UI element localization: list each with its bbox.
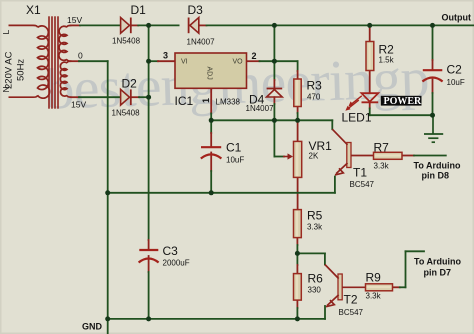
- svg-text:T2: T2: [344, 293, 358, 307]
- wire: center tap to GND vertical: [71, 60, 79, 62]
- svg-text:R3: R3: [307, 79, 323, 93]
- wire: VR1 wiper feed: [273, 120, 275, 156]
- svg-text:0: 0: [78, 51, 83, 61]
- wire: mid ground rail: [108, 192, 335, 194]
- svg-text:10uF: 10uF: [226, 156, 244, 165]
- emitter arrow: [335, 168, 343, 175]
- wire: top rail D3 to right edge (Output): [199, 24, 207, 26]
- svg-text:ADJ: ADJ: [206, 67, 213, 80]
- svg-text:To Arduino: To Arduino: [414, 257, 461, 267]
- wire: T1 collector feed: [331, 120, 333, 129]
- resistor R2: [366, 42, 395, 71]
- wire: R2 top pin from rail: [369, 25, 371, 41]
- svg-text:LED1: LED1: [342, 110, 372, 124]
- svg-text:pin D7: pin D7: [424, 268, 452, 278]
- svg-text:VI: VI: [181, 59, 188, 66]
- svg-text:2: 2: [252, 51, 257, 61]
- capacitor C2: [422, 63, 464, 88]
- diode D4: [246, 89, 283, 114]
- svg-text:3: 3: [163, 51, 168, 61]
- LED1: [342, 93, 423, 124]
- svg-text:10uF: 10uF: [447, 78, 465, 87]
- wire: R5 pins: [296, 238, 298, 245]
- primary winding: [9, 25, 38, 27]
- emitter arrow: [326, 300, 334, 307]
- resistor R3: [294, 79, 322, 107]
- svg-text:To Arduino: To Arduino: [414, 161, 461, 171]
- POWER label: [381, 96, 422, 106]
- svg-text:pin D8: pin D8: [422, 171, 450, 181]
- svg-text:X1: X1: [26, 3, 41, 17]
- svg-text:LM338: LM338: [216, 98, 241, 107]
- transistor T1: [332, 129, 374, 189]
- wire: T2 collector feed: [297, 252, 325, 254]
- potentiometer VR1: [283, 139, 332, 177]
- wire: C3 in +V vertical: [148, 240, 150, 250]
- svg-text:D1: D1: [131, 3, 147, 17]
- wire: C2 branch from output rail: [432, 25, 434, 60]
- core: [49, 16, 58, 108]
- wire: VR1 pins: [297, 120, 299, 141]
- svg-text:D3: D3: [188, 3, 204, 17]
- secondary winding upper: [67, 25, 72, 27]
- wire: C1 vertical: [210, 120, 212, 133]
- svg-text:R2: R2: [379, 43, 395, 57]
- svg-text:IC1: IC1: [175, 94, 194, 108]
- wire: D2 cathode to +V vertical: [132, 96, 139, 98]
- regulator IC1 LM338: [163, 51, 257, 109]
- capacitor C3: [139, 244, 190, 268]
- wire: T1 emitter to mid rail: [334, 177, 336, 193]
- resistor R5: [294, 209, 324, 238]
- svg-text:470: 470: [307, 93, 321, 102]
- svg-text:L: L: [1, 30, 11, 35]
- wire: ADJ rail: [211, 119, 332, 121]
- wire: top rail from transformer 15V tap to D1: [71, 24, 80, 26]
- diode D2: [112, 77, 141, 118]
- diode D1: [112, 3, 146, 46]
- wire: LED bottom to C2 bottom junction: [369, 103, 371, 109]
- svg-text:50Hz: 50Hz: [16, 59, 27, 81]
- wire: bottom 15V tap to D2: [71, 96, 79, 98]
- svg-text:BC547: BC547: [350, 180, 375, 189]
- svg-text:3.3k: 3.3k: [366, 292, 382, 301]
- svg-text:C3: C3: [163, 244, 179, 258]
- secondary winding lower: [67, 61, 72, 63]
- svg-text:2000uF: 2000uF: [163, 259, 190, 268]
- svg-text:Output: Output: [442, 13, 472, 23]
- ground symbol (right): [424, 115, 443, 142]
- svg-text:C2: C2: [447, 63, 463, 77]
- wire: VI pin3 feed: [149, 60, 158, 62]
- svg-text:R7: R7: [374, 141, 390, 155]
- emission arrows: [345, 96, 361, 111]
- wire: D4 vertical VO to diode: [273, 61, 275, 80]
- wire: R7 to Arduino D8: [402, 155, 414, 157]
- wire: bottom GND rail: [108, 318, 325, 320]
- svg-text:1N5408: 1N5408: [112, 109, 141, 118]
- resistor R9: [366, 271, 393, 301]
- svg-text:2K: 2K: [309, 152, 319, 161]
- svg-text:1: 1: [201, 98, 211, 103]
- svg-text:1N4007: 1N4007: [187, 38, 216, 47]
- svg-text:220V AC: 220V AC: [4, 51, 15, 89]
- diode D3: [187, 3, 216, 47]
- wire: R6 pins: [296, 253, 298, 265]
- wire: ADJ pin vertical: [210, 88, 212, 113]
- svg-text:BC547: BC547: [339, 308, 364, 317]
- resistor R6: [294, 272, 324, 301]
- svg-text:1N4007: 1N4007: [246, 104, 275, 113]
- svg-text:POWER: POWER: [384, 96, 423, 107]
- svg-text:3.3k: 3.3k: [307, 223, 323, 232]
- svg-text:R6: R6: [308, 272, 324, 286]
- svg-text:15V: 15V: [71, 100, 86, 110]
- transformer X1: [1, 3, 86, 110]
- wire: T2 emitter to GND rail: [324, 306, 326, 319]
- wire: top rail D1 to D3: [132, 24, 139, 26]
- svg-text:T1: T1: [353, 166, 367, 180]
- wire: VO pin2 to R3 corner: [247, 60, 260, 62]
- wire: R2 bottom pin to LED: [369, 71, 371, 94]
- svg-text:C1: C1: [226, 141, 242, 155]
- wire: R9 to Arduino D7: [392, 286, 400, 288]
- wire: D4 vertical top rail to VO: [273, 25, 275, 61]
- svg-text:R5: R5: [307, 209, 323, 223]
- svg-text:D2: D2: [122, 77, 138, 91]
- svg-text:1N5408: 1N5408: [112, 37, 141, 46]
- wire: +V vertical x=148.6: [148, 25, 150, 240]
- transistor T2: [325, 265, 366, 318]
- svg-text:330: 330: [308, 286, 322, 295]
- svg-text:3.3k: 3.3k: [374, 162, 390, 171]
- svg-text:GND: GND: [82, 322, 103, 332]
- resistor R7: [374, 141, 403, 171]
- svg-text:VO: VO: [233, 59, 244, 66]
- wiper arrow: [283, 156, 290, 158]
- svg-text:R9: R9: [366, 271, 382, 285]
- svg-text:15V: 15V: [67, 15, 82, 25]
- wire: R3 pins: [297, 71, 299, 79]
- capacitor C1: [201, 141, 245, 165]
- svg-text:1.5k: 1.5k: [379, 56, 395, 65]
